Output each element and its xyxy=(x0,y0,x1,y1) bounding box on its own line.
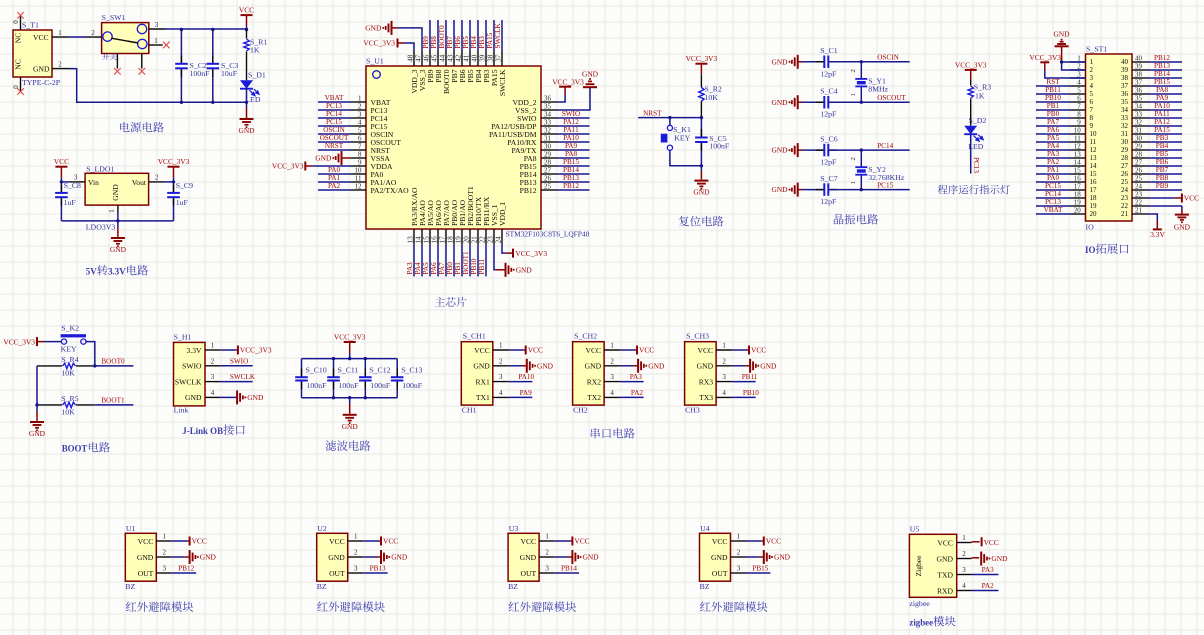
title 串口电路 xyxy=(591,428,635,438)
T1 pin 2 GND xyxy=(52,68,70,70)
svg-text:TXD: TXD xyxy=(937,570,953,579)
svg-text:GND: GND xyxy=(1053,30,1070,39)
svg-text:U4: U4 xyxy=(700,524,710,533)
SW1 pin 1 xyxy=(149,44,163,46)
LED D2 xyxy=(964,126,977,135)
U1 pin 42 PB6 xyxy=(461,51,463,67)
svg-text:28: 28 xyxy=(1121,154,1129,162)
ST1 pin 29 xyxy=(1132,149,1148,151)
svg-text:3.3V: 3.3V xyxy=(108,267,126,277)
svg-text:2: 2 xyxy=(354,549,358,557)
svg-text:VCC: VCC xyxy=(751,346,766,355)
U1 pin 11 PA1/AO xyxy=(351,181,367,183)
svg-text:zigbee: zigbee xyxy=(909,618,933,628)
svg-text:S_K2: S_K2 xyxy=(61,324,79,333)
svg-text:PA5: PA5 xyxy=(422,262,430,275)
svg-text:13: 13 xyxy=(1074,150,1082,158)
svg-text:PB10: PB10 xyxy=(470,258,478,274)
svg-text:3: 3 xyxy=(545,565,549,573)
U1 pin 6 OSCOUT xyxy=(351,141,367,143)
svg-text:23: 23 xyxy=(1135,190,1143,198)
wire+net BOOT1 xyxy=(469,245,471,277)
capacitor S_C11 xyxy=(333,359,335,377)
wire+net PA4 xyxy=(421,245,423,277)
svg-text:39: 39 xyxy=(478,54,486,62)
junction dots filter xyxy=(332,357,335,360)
capacitor C3 xyxy=(212,30,214,63)
svg-text:21: 21 xyxy=(470,236,478,244)
wire+net PA0 xyxy=(318,173,351,175)
svg-text:S_C4: S_C4 xyxy=(820,86,837,95)
svg-text:GND: GND xyxy=(200,553,217,562)
svg-text:5V: 5V xyxy=(86,267,97,277)
svg-text:PB5: PB5 xyxy=(462,36,470,49)
wire U4 VCC xyxy=(746,540,762,542)
svg-text:35: 35 xyxy=(1135,94,1143,102)
U1 pin 17 PA7/AO xyxy=(445,229,447,245)
wire+net PB10 (ST1 left) xyxy=(1036,101,1070,103)
ST1 pin 10 xyxy=(1070,133,1086,135)
wire S_CH3 GND xyxy=(732,365,745,367)
svg-text:PB15: PB15 xyxy=(1154,78,1170,86)
ground GND filter xyxy=(349,398,351,404)
U2 pin 2 GND xyxy=(348,556,364,558)
S_CH3 pin 1 VCC xyxy=(716,349,732,351)
svg-text:21: 21 xyxy=(1135,206,1143,214)
svg-text:2: 2 xyxy=(358,102,362,110)
svg-text:1: 1 xyxy=(108,209,116,213)
wire+net SWCLK (H1) xyxy=(220,381,252,383)
filter top rail wire xyxy=(302,358,398,360)
svg-text:30: 30 xyxy=(544,142,552,150)
wire+net PA5 xyxy=(429,245,431,277)
svg-text:14: 14 xyxy=(1074,158,1082,166)
svg-text:IO: IO xyxy=(1086,223,1095,232)
H1 pin 2 SWIO xyxy=(205,365,220,367)
wire U1 VSS_3 to GND xyxy=(398,28,422,51)
svg-text:4: 4 xyxy=(499,389,503,397)
svg-text:GND: GND xyxy=(1174,223,1191,232)
wire+net PC15 xyxy=(861,189,909,191)
svg-text:PA9: PA9 xyxy=(520,389,533,397)
T1 pin 0 top xyxy=(20,17,22,31)
LDO pin 3 xyxy=(70,181,85,183)
power VCC (U3) xyxy=(570,540,572,542)
svg-text:GND: GND xyxy=(711,553,728,562)
U1 pin 29 PA8 xyxy=(541,157,557,159)
U1 pin 18 PB0/AO xyxy=(453,229,455,245)
resistor R2 xyxy=(700,75,702,87)
svg-text:2: 2 xyxy=(211,357,215,365)
svg-text:12pF: 12pF xyxy=(820,110,837,119)
S_CH2 pin 3 RX2 xyxy=(604,381,620,383)
wire+net PB13 (ST1 right) xyxy=(1148,69,1183,71)
wire+net PA3 xyxy=(413,245,415,277)
ST1 pin 34 xyxy=(1132,109,1148,111)
svg-text:38: 38 xyxy=(486,54,494,62)
svg-text:13: 13 xyxy=(406,236,414,244)
svg-text:PB8: PB8 xyxy=(430,36,438,49)
S_CH2 pin 4 TX2 xyxy=(604,396,620,398)
svg-text:STM32F103C8T6_LQFP48: STM32F103C8T6_LQFP48 xyxy=(506,230,590,239)
LDO pin 1 (GND) xyxy=(117,205,119,213)
svg-text:3: 3 xyxy=(163,565,167,573)
svg-text:3: 3 xyxy=(1077,70,1081,78)
svg-text:37: 37 xyxy=(1121,82,1129,90)
svg-text:PA3: PA3 xyxy=(982,566,995,574)
wire+net PB12 (ST1 right) xyxy=(1148,61,1183,63)
U1 pin 43 PB7 xyxy=(453,51,455,67)
svg-text:PB12: PB12 xyxy=(520,186,537,195)
svg-text:37: 37 xyxy=(1135,78,1143,86)
svg-text:22: 22 xyxy=(1121,202,1129,210)
svg-text:VCC: VCC xyxy=(329,537,345,546)
svg-text:10K: 10K xyxy=(61,368,75,377)
svg-text:24: 24 xyxy=(494,236,502,244)
U1 pin 25 PB12 xyxy=(541,189,557,191)
wire+net PA6 xyxy=(437,245,439,277)
svg-text:46: 46 xyxy=(422,54,430,62)
svg-text:PC14: PC14 xyxy=(1045,190,1061,198)
svg-text:GND: GND xyxy=(365,24,382,33)
U1 pin 24 VDD_1 xyxy=(501,229,503,245)
svg-text:25: 25 xyxy=(1121,178,1129,186)
crystal Y1 8MHz xyxy=(860,62,862,79)
svg-text:PA6: PA6 xyxy=(430,262,438,275)
svg-text:3: 3 xyxy=(1090,74,1094,82)
U1 pin 19 PB1/AO xyxy=(461,229,463,245)
svg-text:PA7: PA7 xyxy=(1047,118,1060,126)
svg-text:3: 3 xyxy=(610,373,614,381)
svg-text:PB0: PB0 xyxy=(1047,110,1060,118)
module U4 body xyxy=(700,533,731,581)
wire+net PB14 (ST1 right) xyxy=(1148,77,1183,79)
SW1 pin 2 xyxy=(86,36,102,38)
svg-text:32: 32 xyxy=(1121,122,1129,130)
svg-text:GND: GND xyxy=(516,265,533,274)
wire+net PB3 (ST1 right) xyxy=(1148,141,1183,143)
wire+net PB10 (S_CH3) xyxy=(732,396,756,398)
svg-text:4: 4 xyxy=(211,389,215,397)
svg-text:4: 4 xyxy=(1090,82,1094,90)
SW1 pin 3 xyxy=(149,28,165,30)
svg-text:3: 3 xyxy=(962,566,966,574)
wire+net PB11 (S_CH3) xyxy=(732,381,756,383)
svg-text:PB6: PB6 xyxy=(1156,158,1169,166)
wire R4 left rail xyxy=(36,366,38,405)
svg-text:PB9: PB9 xyxy=(422,36,430,49)
svg-text:PB4: PB4 xyxy=(1156,142,1169,150)
svg-text:PA7: PA7 xyxy=(438,262,446,275)
svg-text:PA1: PA1 xyxy=(1047,166,1060,174)
ground GND power circuit xyxy=(246,102,248,108)
svg-text:BOOT1: BOOT1 xyxy=(462,251,470,275)
svg-text:PC13: PC13 xyxy=(972,157,980,173)
svg-text:GND: GND xyxy=(760,361,777,370)
crystal Y2 32.768KHz xyxy=(860,150,862,167)
wire+net PB10 xyxy=(477,245,479,277)
wire+net BOOT0 xyxy=(445,20,447,51)
svg-text:PA10: PA10 xyxy=(1154,102,1170,110)
svg-text:VCC: VCC xyxy=(33,33,49,42)
svg-text:PB1: PB1 xyxy=(454,262,462,275)
U1 pin 45 PB8 xyxy=(437,51,439,67)
svg-text:2: 2 xyxy=(722,357,726,365)
svg-text:SWCLK: SWCLK xyxy=(494,23,502,49)
wire+net OSCOUT xyxy=(318,141,351,143)
svg-text:19: 19 xyxy=(1074,198,1082,206)
svg-text:S_SW1: S_SW1 xyxy=(102,13,126,22)
svg-text:GND: GND xyxy=(137,553,154,562)
wire+net PB3 xyxy=(485,20,487,51)
svg-text:RST: RST xyxy=(1046,78,1060,86)
svg-text:PB11: PB11 xyxy=(478,258,486,274)
svg-text:SWCLK: SWCLK xyxy=(498,69,507,96)
svg-text:21: 21 xyxy=(1121,210,1129,218)
svg-text:U2: U2 xyxy=(317,524,327,533)
svg-text:VCC: VCC xyxy=(697,346,713,355)
U1 pin 9 VDDA xyxy=(351,165,367,167)
key K2 xyxy=(44,341,62,343)
svg-text:GND: GND xyxy=(771,98,788,107)
title 红外避障模块 (U3) xyxy=(509,601,577,612)
wire+net PA7 xyxy=(445,245,447,277)
ST1 pin 39 xyxy=(1132,69,1148,71)
svg-text:BOOT0: BOOT0 xyxy=(438,25,446,49)
svg-text:2: 2 xyxy=(962,550,966,558)
svg-text:KEY: KEY xyxy=(674,133,690,142)
svg-text:35: 35 xyxy=(1121,98,1129,106)
svg-text:VCC: VCC xyxy=(937,538,953,547)
svg-text:5: 5 xyxy=(358,126,362,134)
svg-text:VBAT: VBAT xyxy=(325,94,344,102)
wire ST1 pin23 to VCC xyxy=(1148,197,1175,199)
U1 pin 47 VSS_3 xyxy=(421,51,423,67)
SW1 bottom pins xyxy=(116,54,118,69)
wire+net BOOT0 xyxy=(95,365,134,367)
ground GND reset xyxy=(700,166,702,171)
svg-text:PB0: PB0 xyxy=(446,262,454,275)
svg-text:2: 2 xyxy=(155,174,159,182)
title J-Link OB接口 xyxy=(182,424,244,436)
ST1 pin 15 xyxy=(1070,173,1086,175)
wire+net PC15 xyxy=(318,125,351,127)
svg-text:10: 10 xyxy=(355,166,363,174)
svg-text:PA6: PA6 xyxy=(1047,126,1060,134)
svg-text:PB14: PB14 xyxy=(1154,70,1170,78)
ground GND LDO xyxy=(117,221,119,227)
svg-text:S_C1: S_C1 xyxy=(820,46,837,55)
svg-text:PA8: PA8 xyxy=(1156,86,1169,94)
U1 pin 35 VSS_2 xyxy=(541,109,557,111)
svg-text:9: 9 xyxy=(1090,122,1094,130)
svg-text:44: 44 xyxy=(438,54,446,62)
svg-text:TYPE-C-2P: TYPE-C-2P xyxy=(22,78,61,87)
ground GND (S_CH1) xyxy=(526,359,528,373)
svg-text:20: 20 xyxy=(1090,210,1098,218)
svg-text:2: 2 xyxy=(610,357,614,365)
svg-text:42: 42 xyxy=(454,54,462,62)
svg-text:1: 1 xyxy=(354,533,358,541)
wire+net PB4 xyxy=(477,20,479,51)
power VCC_3V3 at U1 VDDA xyxy=(304,162,306,171)
wire U1 GND xyxy=(172,556,185,558)
wire+net PA2 (U5) xyxy=(972,590,999,592)
svg-text:14: 14 xyxy=(1090,162,1098,170)
svg-text:PC13: PC13 xyxy=(326,102,342,110)
svg-text:PB10: PB10 xyxy=(743,389,759,397)
svg-text:S_CH1: S_CH1 xyxy=(463,332,486,341)
svg-text:PB9: PB9 xyxy=(1156,182,1169,190)
ST1 pin 6 xyxy=(1070,101,1086,103)
svg-text:S_R3: S_R3 xyxy=(974,83,991,92)
capacitor S_C4 xyxy=(806,101,823,103)
svg-text:U5: U5 xyxy=(910,525,920,534)
capacitor S_C6 xyxy=(806,149,823,151)
wire S_CH2 GND xyxy=(620,365,633,367)
svg-text:10: 10 xyxy=(1090,130,1098,138)
ST1 pin 9 xyxy=(1070,125,1086,127)
svg-text:VCC: VCC xyxy=(574,537,589,546)
svg-text:100nF: 100nF xyxy=(307,381,328,390)
U1 pin 34 SWIO xyxy=(541,117,557,119)
svg-text:OUT: OUT xyxy=(520,569,536,578)
wire+net SWIO xyxy=(557,117,590,119)
svg-text:VCC_3V3: VCC_3V3 xyxy=(363,38,395,47)
U1 pin 20 PB2/BOOT1 xyxy=(469,229,471,245)
svg-text:11: 11 xyxy=(355,174,362,182)
svg-text:PB4: PB4 xyxy=(470,36,478,49)
svg-text:GND: GND xyxy=(991,554,1008,563)
svg-text:BOOT0: BOOT0 xyxy=(101,357,125,365)
svg-text:PC13: PC13 xyxy=(1045,198,1061,206)
ground GND crystal row 1 xyxy=(797,55,799,69)
svg-text:NRST: NRST xyxy=(643,109,662,117)
svg-text:3: 3 xyxy=(354,565,358,573)
svg-text:S_LDO1: S_LDO1 xyxy=(86,165,114,174)
wire H1 pin4 to GND xyxy=(220,396,235,398)
svg-text:27: 27 xyxy=(1135,158,1143,166)
svg-text:GND: GND xyxy=(771,146,788,155)
svg-text:5: 5 xyxy=(1090,90,1094,98)
svg-text:GND: GND xyxy=(33,65,50,74)
U1 pin 2 PC13 xyxy=(351,109,367,111)
svg-text:OUT: OUT xyxy=(138,569,154,578)
svg-text:PB7: PB7 xyxy=(1156,166,1169,174)
title 滤波电路 xyxy=(326,440,371,451)
wire U1 VDD_1 to VCC_3V3 xyxy=(502,245,505,253)
U5 pin 3 TXD xyxy=(957,574,972,576)
header S_CH2 body xyxy=(573,342,605,405)
svg-text:32: 32 xyxy=(1135,118,1143,126)
svg-text:GND: GND xyxy=(537,361,554,370)
wire U5 GND xyxy=(972,557,980,559)
wire+net PA2 (ST1 left) xyxy=(1036,165,1070,167)
svg-text:2: 2 xyxy=(1077,62,1081,70)
svg-text:GND: GND xyxy=(648,361,665,370)
svg-text:1uF: 1uF xyxy=(176,198,189,207)
svg-text:PA4: PA4 xyxy=(414,262,422,275)
svg-text:6: 6 xyxy=(1090,98,1094,106)
wire+net PA4 (ST1 left) xyxy=(1036,149,1070,151)
svg-text:29: 29 xyxy=(544,150,552,158)
svg-text:GND: GND xyxy=(473,362,490,371)
svg-text:GND: GND xyxy=(342,422,359,431)
wire H1 pin1 to VCC_3V3 xyxy=(220,349,236,351)
svg-text:11: 11 xyxy=(1090,138,1097,146)
ST1 pin 24 xyxy=(1132,189,1148,191)
svg-text:6: 6 xyxy=(1077,94,1081,102)
svg-text:2: 2 xyxy=(737,549,741,557)
ground GND (S_CH2) xyxy=(637,359,639,373)
wire+net PA12 (ST1 right) xyxy=(1148,125,1183,127)
capacitor C5 xyxy=(700,118,702,137)
svg-text:PA15: PA15 xyxy=(1154,126,1170,134)
svg-text:39: 39 xyxy=(1121,66,1129,74)
svg-text:PA10: PA10 xyxy=(518,373,534,381)
wire+net PB6 (ST1 right) xyxy=(1148,165,1183,167)
ST1 pin 13 xyxy=(1070,157,1086,159)
svg-text:PB12: PB12 xyxy=(563,182,579,190)
svg-text:8: 8 xyxy=(1090,114,1094,122)
svg-text:VCC: VCC xyxy=(54,157,69,166)
svg-text:BZ: BZ xyxy=(125,582,135,591)
svg-text:3: 3 xyxy=(499,373,503,381)
wire+net OSCOUT xyxy=(861,101,909,103)
svg-text:VBAT: VBAT xyxy=(1044,206,1063,214)
ground GND crystal row 4 xyxy=(797,183,799,197)
U1 pin 3 PC14 xyxy=(351,117,367,119)
ST1 pin 23 xyxy=(1132,197,1148,199)
svg-text:2: 2 xyxy=(91,29,95,37)
svg-text:PC15: PC15 xyxy=(326,118,342,126)
svg-text:100nF: 100nF xyxy=(339,381,360,390)
wire+net PC13 (indicator) xyxy=(970,134,972,173)
wire+net PA7 (ST1 left) xyxy=(1036,125,1070,127)
header H1 body xyxy=(174,342,206,406)
svg-text:6: 6 xyxy=(358,134,362,142)
U1 pin 22 PB11/RX xyxy=(485,229,487,245)
svg-text:PB13: PB13 xyxy=(1154,62,1170,70)
svg-text:35: 35 xyxy=(544,102,552,110)
ST1 pin 12 xyxy=(1070,149,1086,151)
wire+net PA5 (ST1 left) xyxy=(1036,141,1070,143)
svg-text:GND: GND xyxy=(771,185,788,194)
wire+net SWIO (H1) xyxy=(220,365,252,367)
svg-text:VCC: VCC xyxy=(639,346,654,355)
LED D1 xyxy=(240,80,253,89)
wire+net PA12 xyxy=(557,125,590,127)
U1 pin 15 PA5/AO xyxy=(429,229,431,245)
ground GND at U1 VSS_3 xyxy=(392,27,399,29)
wire+net BOOT1 xyxy=(95,404,134,406)
svg-text:SWIO: SWIO xyxy=(182,362,202,371)
svg-text:1K: 1K xyxy=(250,46,260,55)
junction dot xyxy=(860,101,863,104)
svg-text:12: 12 xyxy=(355,182,363,190)
S_CH3 pin 2 GND xyxy=(716,365,732,367)
svg-text:TX1: TX1 xyxy=(476,393,490,402)
svg-text:18: 18 xyxy=(1074,190,1082,198)
wire S_CH3 VCC xyxy=(732,349,747,351)
wire+net PB5 (ST1 right) xyxy=(1148,157,1183,159)
title BOOT电路 xyxy=(62,442,110,454)
svg-text:0: 0 xyxy=(12,85,20,89)
wire+net PA1 (ST1 left) xyxy=(1036,173,1070,175)
regulator LDO1 xyxy=(85,173,149,205)
U1 pin 48 VDD_3 xyxy=(413,51,415,67)
svg-text:1: 1 xyxy=(1090,58,1094,66)
